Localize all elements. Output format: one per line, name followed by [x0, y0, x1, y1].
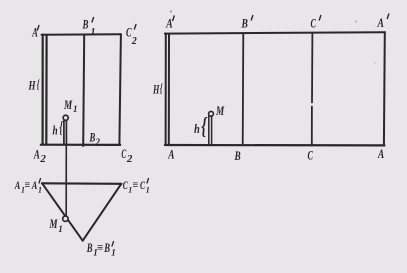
- svg-text:2: 2: [95, 137, 101, 147]
- svg-text:C: C: [121, 146, 126, 161]
- svg-text:M: M: [215, 103, 224, 118]
- svg-text:h: h: [194, 121, 200, 136]
- svg-text:2: 2: [39, 153, 46, 165]
- svg-text:≡: ≡: [97, 242, 103, 254]
- svg-text:M: M: [63, 97, 72, 112]
- svg-text:≡: ≡: [25, 180, 31, 191]
- svg-text:B: B: [104, 240, 111, 255]
- svg-text:A: A: [33, 147, 40, 162]
- svg-text:A: A: [167, 147, 174, 162]
- svg-text:1: 1: [91, 27, 96, 38]
- svg-text:C: C: [140, 178, 146, 192]
- svg-text:A: A: [377, 15, 384, 30]
- svg-text:A: A: [165, 16, 172, 31]
- svg-text:A: A: [32, 25, 38, 40]
- svg-text:H: H: [28, 78, 36, 93]
- svg-text:1: 1: [73, 104, 78, 114]
- svg-text:B: B: [82, 17, 89, 32]
- svg-text:2: 2: [131, 36, 137, 47]
- svg-text:H: H: [152, 82, 160, 97]
- svg-text:A: A: [14, 178, 20, 192]
- svg-text:1: 1: [58, 224, 63, 234]
- svg-text:1: 1: [146, 186, 150, 195]
- svg-text:B: B: [241, 16, 248, 31]
- svg-text:M: M: [49, 216, 58, 231]
- svg-text:1: 1: [38, 186, 42, 195]
- svg-text:2: 2: [126, 153, 133, 165]
- svg-text:A: A: [31, 178, 37, 192]
- svg-text:C: C: [311, 16, 317, 31]
- svg-text:1: 1: [111, 248, 116, 258]
- svg-text:h: h: [53, 123, 58, 138]
- svg-text:C: C: [308, 148, 314, 163]
- svg-text:B: B: [234, 148, 241, 163]
- svg-text:A: A: [377, 146, 384, 161]
- svg-text:B: B: [86, 240, 93, 255]
- svg-text:≡: ≡: [133, 180, 139, 191]
